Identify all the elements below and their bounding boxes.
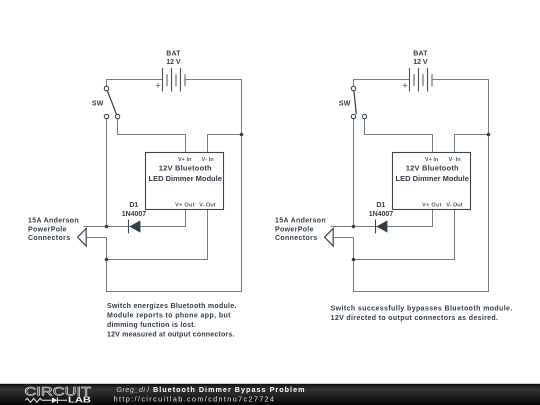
wire: battery+ to switch common (left) — [107, 80, 163, 87]
junction node (right, connector- / V- Out) — [352, 258, 356, 262]
switch SW (right) — [351, 86, 366, 118]
svg-text:LED Dimmer Module: LED Dimmer Module — [149, 174, 222, 183]
svg-text:12V Bluetooth: 12V Bluetooth — [406, 163, 459, 172]
diode D1 (left) — [129, 220, 141, 234]
wire: battery- to right rail top (left) — [185, 80, 242, 135]
junction node (left, switch throw / diode net) — [105, 225, 109, 229]
svg-text:Bluetooth Dimmer Bypass Proble: Bluetooth Dimmer Bypass Problem — [153, 385, 305, 394]
svg-text:dimming function is lost.: dimming function is lost. — [107, 322, 196, 329]
wire: switch right throw to module V+ In (left) — [118, 119, 186, 153]
svg-text:15A Anderson: 15A Anderson — [28, 218, 79, 225]
label D1 / 1N4007 (left) — [122, 202, 146, 218]
svg-text:V- In: V- In — [202, 157, 215, 163]
junction node (right, battery- / V- In) — [487, 133, 491, 137]
wire: switch right throw to module V+ In (right) — [365, 119, 433, 153]
svg-text:Connectors: Connectors — [275, 235, 317, 242]
wire: connector- to lower rail (left) — [86, 237, 106, 239]
svg-text:Module reports to phone app, b: Module reports to phone app, but — [107, 312, 231, 319]
svg-text:D1: D1 — [376, 202, 385, 209]
wire: switch left throw down to diode net (left) — [106, 119, 108, 227]
svg-text:Switch successfully bypasses B: Switch successfully bypasses Bluetooth m… — [331, 305, 513, 312]
svg-text:LED Dimmer Module: LED Dimmer Module — [396, 174, 469, 183]
logo resistor-diode doodle — [25, 397, 67, 403]
svg-text:12V Bluetooth: 12V Bluetooth — [159, 163, 212, 172]
footer bar — [0, 384, 540, 405]
svg-text:V+ In: V+ In — [425, 157, 439, 163]
svg-text:BAT: BAT — [166, 51, 181, 58]
wire: right rail down, bottom run, up to connector corner (right) — [354, 135, 489, 292]
junction node (right, switch throw / diode net) — [352, 225, 356, 229]
junction node (left, battery- / V- In) — [240, 133, 244, 137]
svg-text:BAT: BAT — [413, 51, 428, 58]
svg-text:Connectors: Connectors — [28, 235, 70, 242]
svg-text:LAB: LAB — [68, 395, 91, 405]
label 15A Anderson PowerPole Connectors (left) — [28, 218, 79, 242]
wire: battery- to right rail top (right) — [432, 80, 489, 135]
connector: Anderson PowerPole (left) — [78, 228, 87, 246]
module: 12V Bluetooth LED Dimmer Module (right) — [393, 153, 471, 210]
wire: branch to module V- In (right) — [455, 135, 489, 153]
caption (right) — [331, 305, 513, 322]
label D1 / 1N4007 (right) — [369, 202, 393, 218]
svg-text:V+ Out: V+ Out — [175, 202, 195, 208]
wire: connector+ / diode / module V+ Out (left) — [84, 210, 186, 227]
footer title: Greg_di / Bluetooth Dimmer Bypass Problem — [116, 385, 304, 394]
svg-text:12 V: 12 V — [413, 59, 428, 66]
label 15A Anderson PowerPole Connectors (right) — [275, 218, 326, 242]
svg-text:Switch energizes Bluetooth mod: Switch energizes Bluetooth module. — [107, 303, 236, 310]
connector: Anderson PowerPole (right) — [325, 228, 334, 246]
svg-text:SW: SW — [92, 100, 104, 107]
wire: connector+ / diode / module V+ Out (right) — [331, 210, 433, 227]
wire: switch left throw down to diode net (right) — [353, 119, 355, 227]
battery BAT (left) — [156, 68, 185, 91]
svg-text:D1: D1 — [129, 202, 138, 209]
svg-text:V- Out: V- Out — [199, 202, 215, 208]
svg-text:1N4007: 1N4007 — [369, 211, 393, 218]
svg-text:V- In: V- In — [449, 157, 462, 163]
label BAT / 12 V (left) — [166, 51, 181, 66]
svg-text:SW: SW — [339, 100, 351, 107]
diode D1 (right) — [376, 220, 388, 234]
junction node (left, connector- / V- Out) — [105, 258, 109, 262]
wire: V- Out branch (left) — [107, 210, 208, 260]
wire: V- Out branch (right) — [354, 210, 455, 260]
svg-text:V+ Out: V+ Out — [422, 202, 442, 208]
wire: connector- to lower rail (right) — [333, 237, 353, 239]
svg-text:/: / — [147, 385, 149, 394]
svg-text:Greg_di: Greg_di — [116, 385, 145, 394]
module: 12V Bluetooth LED Dimmer Module (left) — [146, 153, 224, 210]
svg-text:1N4007: 1N4007 — [122, 211, 146, 218]
wire: right rail down, bottom run, up to connector corner (left) — [107, 135, 242, 292]
label BAT / 12 V (right) — [413, 51, 428, 66]
svg-text:V+ In: V+ In — [178, 157, 192, 163]
svg-text:PowerPole: PowerPole — [275, 226, 314, 233]
svg-text:V- Out: V- Out — [446, 202, 462, 208]
svg-text:12V directed to output connect: 12V directed to output connectors as des… — [331, 315, 498, 322]
svg-text:12 V: 12 V — [166, 59, 181, 66]
wire: battery+ to switch common (right) — [354, 80, 410, 87]
svg-text:PowerPole: PowerPole — [28, 226, 67, 233]
svg-text:15A Anderson: 15A Anderson — [275, 218, 326, 225]
switch SW (left) — [104, 86, 119, 118]
svg-text:12V measured at output connect: 12V measured at output connectors. — [107, 331, 234, 338]
battery BAT (right) — [403, 68, 432, 91]
caption (left) — [107, 303, 236, 339]
wire: branch to module V- In (left) — [208, 135, 242, 153]
svg-text:http://circuitlab.com/cdntnu7c: http://circuitlab.com/cdntnu7c27724 — [114, 395, 274, 404]
